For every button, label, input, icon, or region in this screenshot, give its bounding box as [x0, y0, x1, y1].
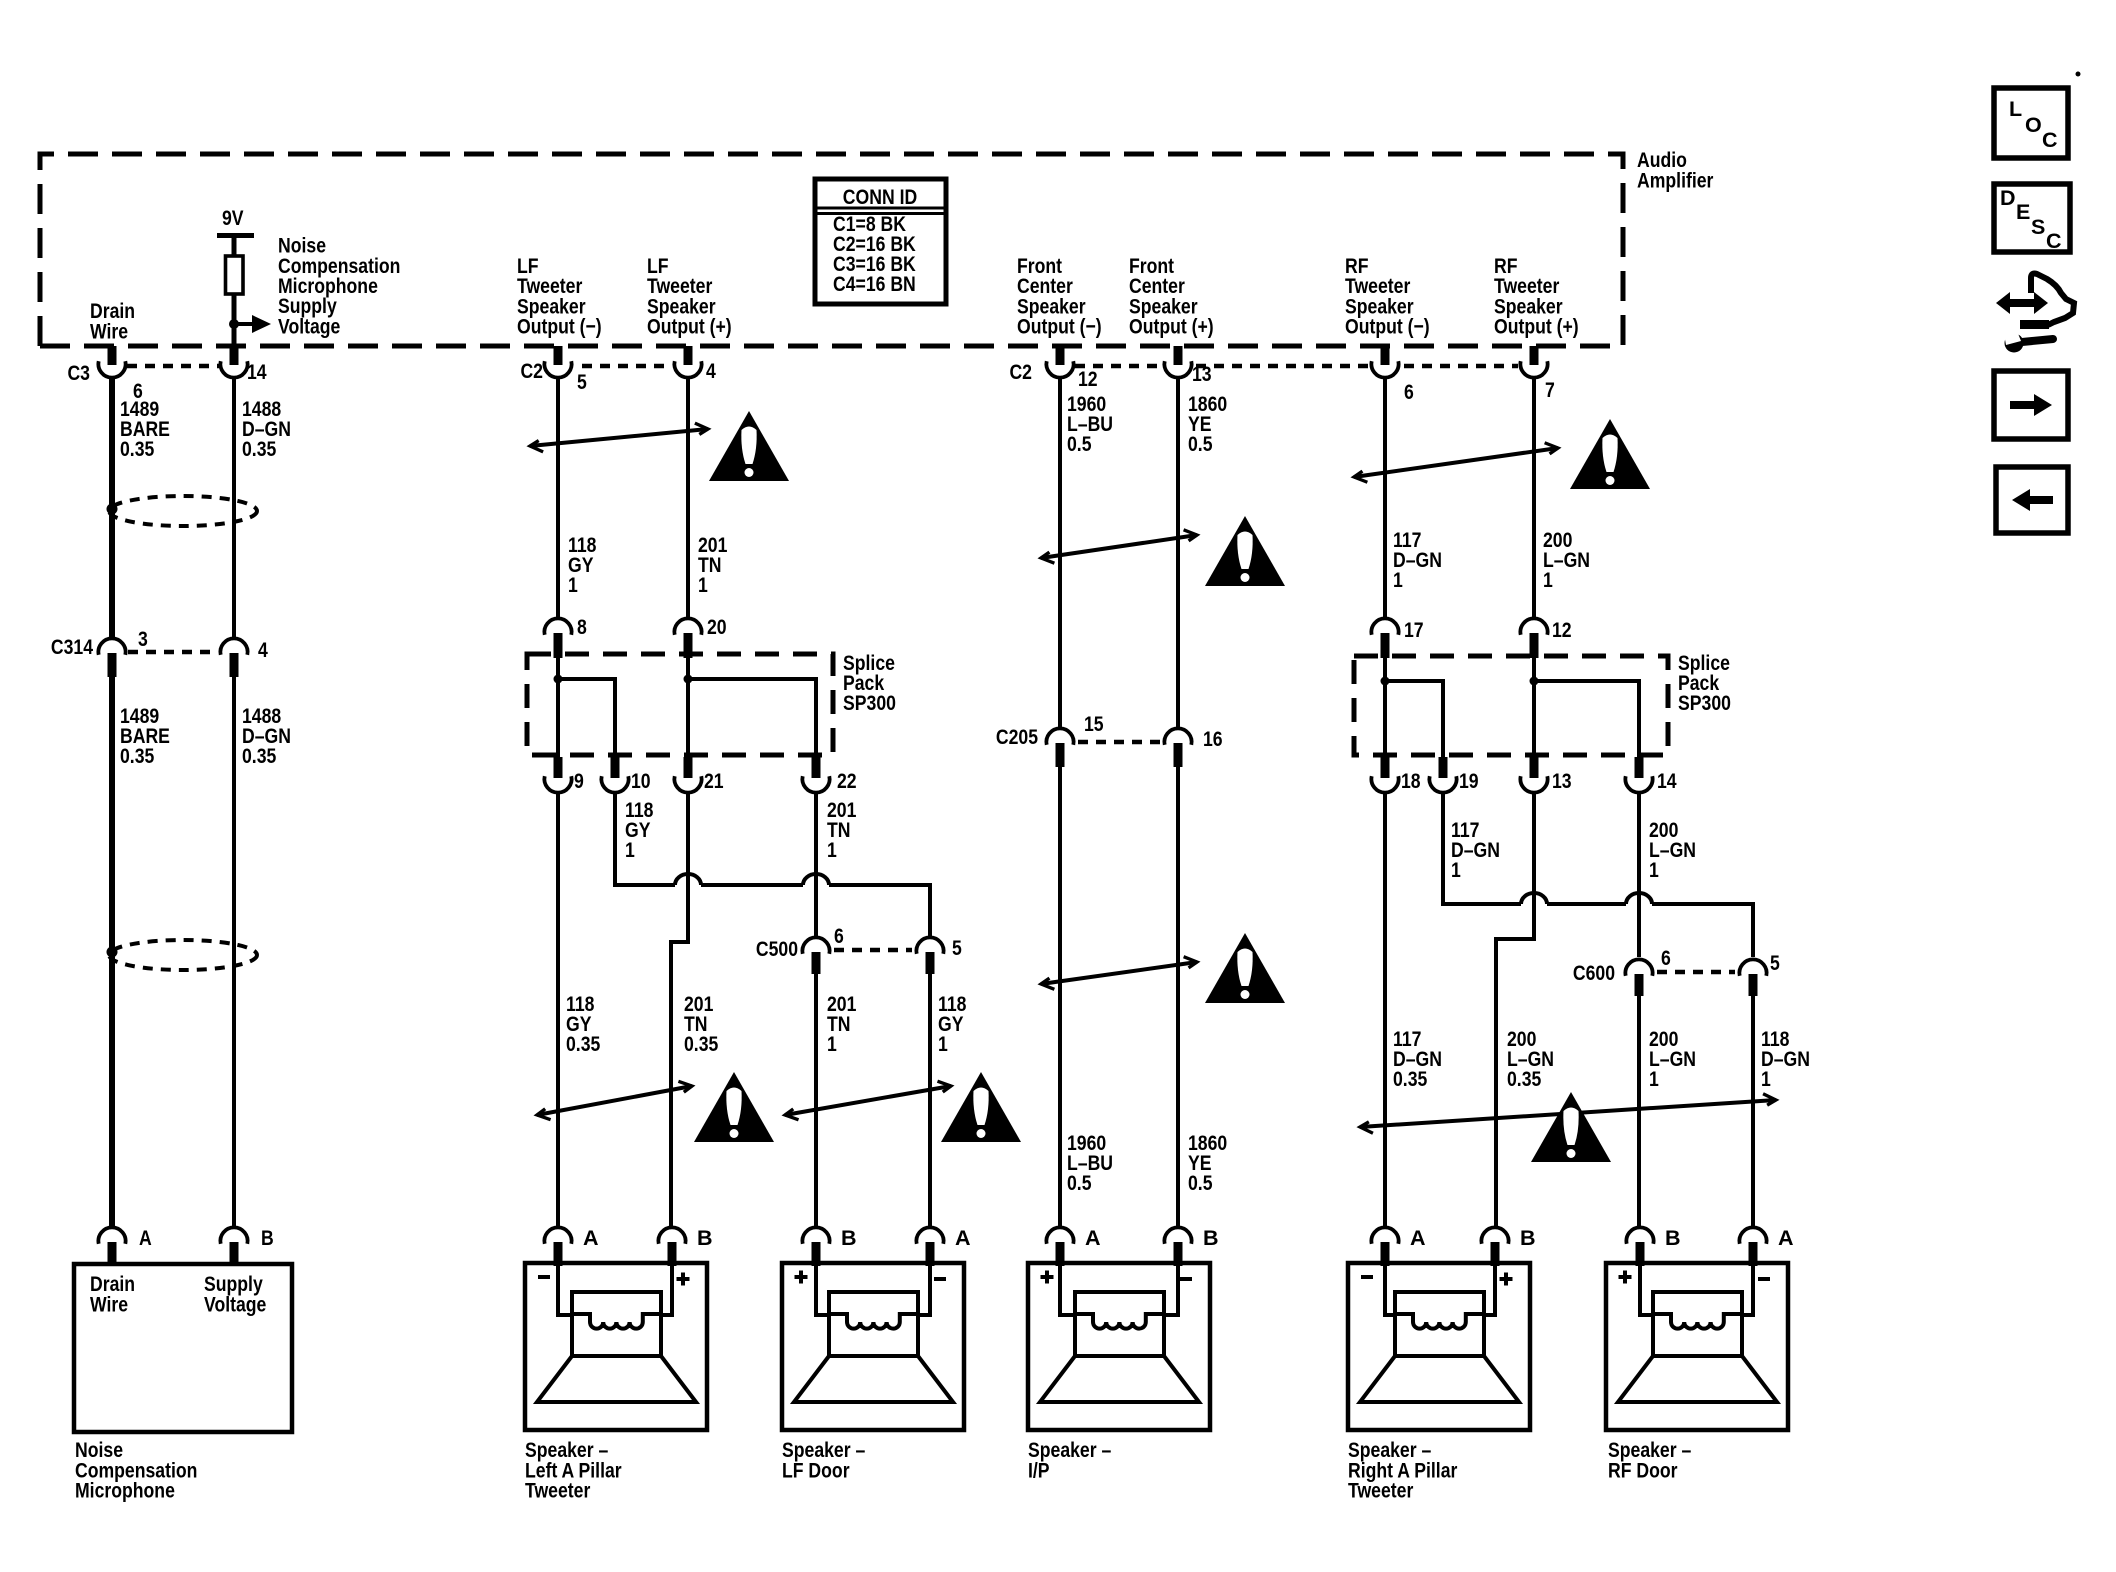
- noise compensation microphone box: [74, 1264, 292, 1432]
- label 1860 YE 0.5 (lower): [1188, 1131, 1227, 1195]
- label Drain Wire (in mic box): [90, 1272, 135, 1317]
- connector C500 dashed link: [834, 948, 912, 953]
- LOC icon box: [1994, 88, 2068, 158]
- svg-text:Output (−): Output (−): [517, 315, 602, 339]
- connector C600 dashed link: [1657, 970, 1735, 975]
- wire 1489 BARE drain (C314-3 to mic A): [109, 677, 115, 1229]
- label Noise Compensation Microphone Supply Voltage: [278, 234, 400, 339]
- twisted pair arrow LF lower-left: [537, 1086, 692, 1115]
- junction drain/shield lower: [107, 947, 118, 958]
- svg-text:1: 1: [1649, 1067, 1659, 1091]
- label Speaker - Left A Pillar Tweeter: [525, 1438, 622, 1503]
- svg-text:16: 16: [1203, 727, 1223, 751]
- label 200 L-GN 1 (upper RF): [1543, 528, 1590, 592]
- svg-text:LF Door: LF Door: [782, 1459, 850, 1483]
- connector C2 dashed link (FC-RF): [1075, 364, 1160, 369]
- speaker Speaker - RF Door: [1606, 1226, 1794, 1430]
- label 201 TN 0.35 (lower): [684, 992, 718, 1056]
- stray dot: [2076, 72, 2081, 77]
- wire hop over pin14 wire: [1626, 893, 1652, 904]
- svg-text:Tweeter: Tweeter: [1348, 1479, 1414, 1503]
- svg-text:0.35: 0.35: [684, 1032, 718, 1056]
- svg-text:10: 10: [631, 769, 651, 793]
- mic pin A stub: [108, 1242, 117, 1266]
- wire 9V to resistor: [232, 236, 237, 256]
- connector C314 pin 3 stub: [108, 653, 117, 677]
- connector C3 dashed link: [127, 364, 219, 369]
- junction supply tap: [229, 319, 239, 329]
- connector C600 pin 5 hump: [1739, 959, 1766, 975]
- connector cup C2 pin 13: [1164, 361, 1191, 377]
- svg-text:A: A: [583, 1226, 599, 1250]
- connector stub C2 pin 13: [1174, 346, 1183, 365]
- svg-text:6: 6: [1404, 380, 1414, 404]
- SP300 pin 20 stub: [684, 633, 693, 658]
- warning triangle LF upper: [709, 411, 789, 481]
- connector C205 pin 16 hump: [1164, 728, 1191, 744]
- connector cup C3 pin 14: [220, 361, 247, 377]
- wire 117 D-GN 1 (C2-6 to SP300-17): [1383, 376, 1387, 620]
- twisted pair arrow RF upper: [1354, 448, 1558, 477]
- junction SP300 pin17: [1381, 677, 1390, 686]
- label 201 TN 1 (bottom): [827, 992, 856, 1056]
- label Supply Voltage (in mic box): [204, 1272, 266, 1317]
- label 201 TN 1 (below pin 22): [827, 798, 856, 862]
- svg-text:9V: 9V: [222, 206, 244, 230]
- SP300 pin 19 stub: [1439, 757, 1448, 778]
- label 1489 BARE 0.35 (lower): [120, 704, 170, 768]
- label 117 D-GN 1 (upper RF): [1393, 528, 1442, 592]
- warning triangle LF lower-left: [694, 1072, 774, 1142]
- wire hop over pin13 wire: [1521, 893, 1547, 904]
- connector cup C2 pin 5: [544, 361, 571, 377]
- svg-text:A: A: [139, 1226, 152, 1250]
- speaker Speaker - LF Door: [782, 1226, 971, 1430]
- twisted pair arrow LF lower-right: [785, 1086, 951, 1115]
- SP300 right interior wires: [1385, 658, 1443, 757]
- audio amplifier box (dashed): [40, 154, 1623, 346]
- svg-text:Output (+): Output (+): [647, 315, 732, 339]
- C600 pin 5 stub: [1749, 974, 1758, 996]
- twisted pair arrow LF upper: [530, 429, 708, 446]
- SP300 pin 10 stub: [611, 757, 620, 778]
- svg-text:0.5: 0.5: [1188, 1171, 1213, 1195]
- label 1489 BARE 0.35 (upper): [120, 397, 170, 461]
- wire 118 D-GN 1 (pin 19 to C600-5): [1443, 791, 1753, 957]
- svg-text:C3: C3: [67, 361, 90, 385]
- svg-text:9: 9: [574, 769, 584, 793]
- wire 1489 BARE drain (C3-6 to C314-3): [109, 376, 115, 640]
- SP300 left interior wires 2: [688, 656, 816, 757]
- label 118 GY 1 (bottom): [938, 992, 966, 1056]
- CONN ID table: [815, 179, 946, 304]
- speaker Speaker - I/P: [1028, 1226, 1219, 1430]
- wire supply arrow tap: [234, 322, 252, 326]
- connector stub C3 pin 14: [230, 346, 239, 365]
- label Front Center Speaker Output (-): [1017, 254, 1102, 339]
- shield ellipse (lower): [109, 940, 257, 970]
- mic pin A hump: [98, 1227, 125, 1243]
- SP300 pin 8 stub: [554, 633, 563, 658]
- label 200 L-GN 0.35 (bottom): [1507, 1027, 1554, 1091]
- svg-text:C314: C314: [51, 635, 93, 659]
- svg-text:0.5: 0.5: [1067, 432, 1092, 456]
- label 200 L-GN 1 (below pin 14): [1649, 818, 1696, 882]
- label Audio Amplifier: [1637, 148, 1714, 192]
- svg-text:18: 18: [1401, 769, 1421, 793]
- shield ellipse (upper): [109, 496, 257, 526]
- svg-text:C2: C2: [520, 359, 543, 383]
- SP300 pin 21 stub: [684, 757, 693, 778]
- label RF Tweeter Speaker Output (-): [1345, 254, 1430, 339]
- label Speaker - LF Door: [782, 1438, 865, 1482]
- resistor (noise comp mic supply): [226, 256, 244, 294]
- wire resistor to pin 14: [232, 294, 237, 346]
- SP300 pin 8 hump: [544, 618, 571, 634]
- connector stub C2 pin 4: [684, 346, 693, 365]
- svg-text:Voltage: Voltage: [204, 1293, 266, 1317]
- C500 pin 5 stub: [926, 952, 935, 974]
- svg-text:5: 5: [1770, 951, 1780, 975]
- wire 200 L-GN 0.35 (pin 13 to speaker B): [1496, 791, 1534, 1229]
- SP300 pin 12 hump: [1520, 618, 1547, 634]
- svg-text:C600: C600: [1573, 961, 1615, 985]
- svg-text:8: 8: [577, 615, 587, 639]
- C600 pin 6 stub: [1635, 974, 1644, 996]
- svg-text:14: 14: [1657, 769, 1677, 793]
- svg-text:B: B: [1203, 1226, 1219, 1250]
- svg-text:B: B: [841, 1226, 857, 1250]
- label Noise Compensation Microphone: [75, 1438, 197, 1503]
- svg-text:20: 20: [707, 615, 727, 639]
- junction SP300 pin20: [684, 675, 693, 684]
- svg-text:0.35: 0.35: [120, 437, 154, 461]
- label Front Center Speaker Output (+): [1129, 254, 1214, 339]
- connector cup C3 pin 6: [98, 361, 125, 377]
- SP300 pin 9 cup: [544, 776, 571, 792]
- label 1960 L-BU 0.5 (lower): [1067, 1131, 1113, 1195]
- wire 118 GY 0.35 (pin 9 to speaker A): [556, 791, 560, 1229]
- wire 118 D-GN 1 (C600-5 to RF door speaker A): [1751, 996, 1755, 1229]
- svg-text:E: E: [2016, 200, 2030, 224]
- SP300 pin 22 cup: [802, 776, 829, 792]
- svg-text:1: 1: [938, 1032, 948, 1056]
- speaker Speaker - Left A Pillar Tweeter: [525, 1226, 713, 1430]
- connector C314 pin 4 stub: [230, 653, 239, 677]
- svg-text:Tweeter: Tweeter: [525, 1479, 591, 1503]
- svg-text:4: 4: [258, 638, 268, 662]
- label LF Tweeter Speaker Output (+): [647, 254, 732, 339]
- twisted pair arrow FC lower: [1041, 962, 1197, 984]
- svg-text:O: O: [2025, 113, 2042, 137]
- svg-text:1: 1: [827, 1032, 837, 1056]
- wire 200 L-GN 1 (C2-7 to SP300-12): [1532, 376, 1536, 620]
- svg-text:4: 4: [706, 359, 716, 383]
- SP300 pin 17 hump: [1371, 618, 1398, 634]
- wire hop over pin22 wire: [803, 874, 829, 885]
- svg-text:Wire: Wire: [90, 1293, 128, 1317]
- connector cup C2 pin 4: [674, 361, 701, 377]
- svg-text:A: A: [1778, 1226, 1794, 1250]
- connector C2 dashed link (LF): [582, 364, 672, 369]
- label Speaker - RF Door: [1608, 1438, 1691, 1482]
- svg-text:B: B: [697, 1226, 713, 1250]
- SP300 left interior wires: [558, 656, 615, 757]
- SP300 right interior wires 2: [1534, 658, 1639, 757]
- svg-text:1: 1: [1649, 858, 1659, 882]
- svg-text:C: C: [2042, 128, 2058, 152]
- svg-text:C2: C2: [1009, 360, 1032, 384]
- svg-text:0.5: 0.5: [1188, 432, 1213, 456]
- wire 1488 D-GN (C314-4 to mic B): [232, 677, 236, 1229]
- svg-text:7: 7: [1545, 378, 1555, 402]
- warning triangle FC lower: [1205, 933, 1285, 1003]
- connector C314 pin 4 hump: [220, 638, 247, 654]
- svg-text:Amplifier: Amplifier: [1637, 169, 1714, 193]
- SP300 pin 12 stub: [1530, 633, 1539, 658]
- connector C314 dashed link: [128, 650, 218, 655]
- SP300 pin 13 cup: [1520, 776, 1547, 792]
- SP300 pin 9 stub: [554, 757, 563, 778]
- splice pack SP300 box (right, dashed): [1354, 656, 1668, 755]
- wire 117 D-GN 0.35 (pin 18 to speaker A): [1383, 791, 1387, 1229]
- svg-text:C4=16 BN: C4=16 BN: [833, 272, 916, 296]
- svg-text:A: A: [1410, 1226, 1426, 1250]
- label Splice Pack SP300 (left): [843, 651, 896, 715]
- svg-text:22: 22: [837, 769, 857, 793]
- svg-text:I/P: I/P: [1028, 1459, 1050, 1483]
- svg-text:12: 12: [1552, 618, 1572, 642]
- wire 118 GY 1 (C2-5 to SP300-8): [556, 376, 560, 620]
- label 1960 L-BU 0.5 (upper): [1067, 392, 1113, 456]
- SP300 pin 18 cup: [1371, 776, 1398, 792]
- svg-text:C205: C205: [996, 725, 1038, 749]
- warning triangle LF lower-right: [941, 1072, 1021, 1142]
- label Speaker - I/P: [1028, 1438, 1111, 1482]
- splice pack SP300 box (left, dashed): [527, 654, 833, 755]
- wire 200 L-GN 1 (C600-6 to RF door speaker B): [1637, 996, 1641, 1229]
- connector cup C2 pin 12: [1046, 361, 1073, 377]
- wire 201 TN 0.35 (pin 21 to speaker B): [671, 791, 688, 1229]
- svg-text:Voltage: Voltage: [278, 315, 340, 339]
- right arrow icon box: [1994, 371, 2068, 439]
- wire 1860 YE 0.5 (C205-16 to IP speaker B): [1176, 767, 1180, 1229]
- svg-text:Output (+): Output (+): [1494, 315, 1579, 339]
- connector cup C2 pin 6 (RF): [1371, 361, 1398, 377]
- svg-text:C500: C500: [756, 937, 798, 961]
- label 1488 D-GN 0.35 (lower): [242, 704, 291, 768]
- svg-text:0.5: 0.5: [1067, 1171, 1092, 1195]
- label 118 GY 0.35 (lower): [566, 992, 600, 1056]
- svg-text:0.35: 0.35: [566, 1032, 600, 1056]
- svg-text:1: 1: [625, 838, 635, 862]
- connector stub C2 pin 7 (RF): [1530, 346, 1539, 365]
- label 118 GY 1 (below pin 10): [625, 798, 653, 862]
- connector C500 pin 5 hump: [916, 937, 943, 953]
- label 117 D-GN 1 (below pin 19): [1451, 818, 1500, 882]
- svg-text:3: 3: [138, 627, 148, 651]
- svg-text:Microphone: Microphone: [75, 1479, 175, 1503]
- wire 1960 L-BU 0.5 (C2-12 to C205-15): [1058, 376, 1062, 730]
- svg-text:14: 14: [247, 360, 267, 384]
- SP300 pin 20 hump: [674, 618, 701, 634]
- wire 118 GY 1 (C500-5 to LF door speaker A): [928, 974, 932, 1229]
- table rows C1..C4: [833, 212, 917, 296]
- SP300 pin 22 stub: [812, 757, 821, 778]
- svg-text:12: 12: [1078, 367, 1098, 391]
- wire 118 GY 1 (pin 10 to C500-5): [615, 791, 930, 936]
- label 1860 YE 0.5 (upper): [1188, 392, 1227, 456]
- wire 1488 D-GN (C3-14 to C314-4): [232, 376, 236, 640]
- svg-text:15: 15: [1084, 712, 1104, 736]
- SP300 pin 21 cup: [674, 776, 701, 792]
- arrowhead supply voltage: [252, 315, 271, 333]
- svg-text:19: 19: [1459, 769, 1479, 793]
- warning triangle RF upper: [1570, 419, 1650, 489]
- svg-text:0.35: 0.35: [242, 437, 276, 461]
- label LF Tweeter Speaker Output (-): [517, 254, 602, 339]
- wire 201 TN 1 (C2-4 to SP300-20): [686, 376, 690, 620]
- svg-text:RF Door: RF Door: [1608, 1459, 1678, 1483]
- svg-text:0.35: 0.35: [120, 744, 154, 768]
- warning triangle RF lower: [1531, 1092, 1611, 1162]
- label 1488 D-GN 0.35 (upper): [242, 397, 291, 461]
- C205 pin 16 stub: [1174, 743, 1183, 767]
- SP300 pin 13 stub: [1530, 757, 1539, 778]
- svg-text:5: 5: [577, 370, 587, 394]
- svg-text:1: 1: [827, 838, 837, 862]
- svg-text:1: 1: [1543, 568, 1553, 592]
- connector cup C2 pin 7 (RF): [1520, 361, 1547, 377]
- mic pin B hump: [220, 1227, 247, 1243]
- mic pin B stub: [230, 1242, 239, 1266]
- SP300 pin 14 cup: [1625, 776, 1652, 792]
- svg-text:1: 1: [1393, 568, 1403, 592]
- SP300 pin 17 stub: [1381, 633, 1390, 658]
- label 117 D-GN 0.35 (bottom): [1393, 1027, 1442, 1091]
- svg-text:B: B: [261, 1226, 274, 1250]
- svg-text:S: S: [2031, 215, 2045, 239]
- wire 1860 YE 0.5 (C2-13 to C205-16): [1176, 376, 1180, 730]
- svg-text:6: 6: [1661, 946, 1671, 970]
- label 201 TN 1 (upper LF): [698, 533, 727, 597]
- svg-text:21: 21: [704, 769, 724, 793]
- connector C600 pin 6 hump: [1625, 959, 1652, 975]
- label 118 GY 1 (upper LF): [568, 533, 596, 597]
- C500 pin 6 stub: [812, 952, 821, 974]
- svg-text:1: 1: [1451, 858, 1461, 882]
- connector stub C2 pin 6 (RF): [1381, 346, 1390, 365]
- svg-text:A: A: [955, 1226, 971, 1250]
- label 118 D-GN 1 (bottom): [1761, 1027, 1810, 1091]
- connector C500 pin 6 hump: [802, 937, 829, 953]
- junction SP300 pin12: [1530, 677, 1539, 686]
- 9V terminal bar: [217, 233, 254, 238]
- label 200 L-GN 1 (bottom): [1649, 1027, 1696, 1091]
- connector stub C2 pin 12: [1056, 346, 1065, 365]
- svg-text:1: 1: [1761, 1067, 1771, 1091]
- label Splice Pack SP300 (right): [1678, 651, 1731, 715]
- svg-text:CONN ID: CONN ID: [843, 185, 917, 209]
- DESC icon box: [1994, 184, 2070, 253]
- SP300 pin 14 stub: [1635, 757, 1644, 778]
- junction SP300 pin8: [554, 675, 563, 684]
- SP300 pin 19 cup: [1429, 776, 1456, 792]
- wire hop over pin21 wire: [675, 874, 701, 885]
- svg-text:5: 5: [952, 936, 962, 960]
- svg-text:6: 6: [834, 924, 844, 948]
- wire 201 TN 1 (C500-6 to LF door speaker B): [814, 974, 818, 1229]
- connector C205 pin 15 hump: [1046, 728, 1073, 744]
- svg-text:Output (−): Output (−): [1017, 315, 1102, 339]
- connector C314 pin 3 hump: [98, 638, 125, 654]
- svg-text:D: D: [2000, 186, 2016, 210]
- twisted pair arrow FC upper: [1041, 535, 1197, 558]
- svg-text:L: L: [2009, 97, 2022, 121]
- label RF Tweeter Speaker Output (+): [1494, 254, 1579, 339]
- svg-text:Output (+): Output (+): [1129, 315, 1214, 339]
- junction drain/shield upper: [107, 504, 118, 515]
- svg-text:1: 1: [568, 573, 578, 597]
- SP300 pin 10 cup: [601, 776, 628, 792]
- svg-text:Wire: Wire: [90, 320, 128, 344]
- connector stub C3 pin 6: [108, 346, 117, 365]
- svg-text:17: 17: [1404, 618, 1424, 642]
- left arrow icon box: [1996, 467, 2068, 533]
- warning triangle FC upper: [1205, 516, 1285, 586]
- tool icon (arrow + wrench): [1996, 274, 2074, 353]
- svg-text:13: 13: [1192, 362, 1212, 386]
- svg-text:0.35: 0.35: [1393, 1067, 1427, 1091]
- svg-text:SP300: SP300: [843, 691, 896, 715]
- svg-text:B: B: [1520, 1226, 1536, 1250]
- svg-text:B: B: [1665, 1226, 1681, 1250]
- connector stub C2 pin 5: [554, 346, 563, 365]
- svg-text:Output (−): Output (−): [1345, 315, 1430, 339]
- svg-text:C: C: [2046, 229, 2062, 253]
- twisted pair arrow RF lower: [1360, 1100, 1776, 1127]
- SP300 pin 18 stub: [1381, 757, 1390, 778]
- svg-text:SP300: SP300: [1678, 691, 1731, 715]
- wire 201 TN 1 (pin 22 to C500-6): [814, 791, 818, 936]
- wire 200 L-GN 1 (pin 14 to C600-6): [1637, 791, 1641, 957]
- label Drain Wire: [90, 299, 135, 344]
- label Speaker - Right A Pillar Tweeter: [1348, 1438, 1458, 1503]
- svg-text:13: 13: [1552, 769, 1572, 793]
- svg-text:A: A: [1085, 1226, 1101, 1250]
- svg-text:0.35: 0.35: [1507, 1067, 1541, 1091]
- svg-text:1: 1: [698, 573, 708, 597]
- speaker Speaker - Right A Pillar Tweeter: [1348, 1226, 1536, 1430]
- connector C205 dashed link: [1078, 740, 1160, 745]
- svg-text:0.35: 0.35: [242, 744, 276, 768]
- wire 1960 L-BU 0.5 (C205-15 to IP speaker A): [1058, 767, 1062, 1229]
- C205 pin 15 stub: [1056, 743, 1065, 767]
